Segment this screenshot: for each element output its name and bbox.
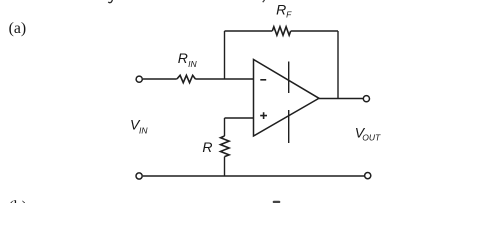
label RF xyxy=(276,2,292,20)
resistor R zigzag xyxy=(221,136,230,157)
label VIN xyxy=(130,117,148,136)
cropped text fragment top-left xyxy=(108,0,112,3)
resistor RF zigzag xyxy=(272,27,290,36)
op-amp minus sign xyxy=(260,79,266,81)
svg-text:OUT: OUT xyxy=(362,133,381,143)
op-amp bottom power pin xyxy=(288,110,290,143)
wire: resistor R to ground rail xyxy=(224,157,226,176)
svg-text:(b): (b) xyxy=(9,199,27,204)
output terminal circle xyxy=(363,96,369,102)
svg-text:F: F xyxy=(286,10,292,20)
input terminal circle xyxy=(136,76,142,82)
wire: top feedback right segment xyxy=(291,30,338,32)
op-amp U1 triangle xyxy=(254,60,320,137)
wire: RIN to op-amp inverting input xyxy=(195,78,253,80)
svg-text:(a): (a) xyxy=(9,20,27,37)
svg-text:R: R xyxy=(276,2,286,18)
wire: bottom rail xyxy=(143,175,365,177)
wire: non-inverting input xyxy=(225,117,254,119)
svg-text:R: R xyxy=(178,50,188,66)
wire: top feedback left segment xyxy=(225,30,273,32)
svg-text:IN: IN xyxy=(188,59,197,69)
bottom-right terminal circle xyxy=(365,173,371,179)
wire: input to RIN xyxy=(143,78,177,80)
cropped text fragment top-mid xyxy=(263,0,265,2)
svg-text:R: R xyxy=(202,139,212,155)
wire: feedback vertical to output xyxy=(337,31,339,99)
bottom-left terminal circle xyxy=(136,173,142,179)
svg-text:IN: IN xyxy=(139,125,148,135)
label VOUT xyxy=(355,124,381,142)
wire: feedback vertical to inverting input xyxy=(224,31,226,79)
label RIN xyxy=(178,50,198,69)
wire: output xyxy=(319,98,363,100)
cropped RF label fragment bottom-mid xyxy=(273,201,281,203)
resistor RIN zigzag xyxy=(177,75,196,82)
wire: node to resistor R xyxy=(224,118,226,136)
op-amp plus sign xyxy=(260,112,267,119)
op-amp top power pin xyxy=(288,62,290,94)
